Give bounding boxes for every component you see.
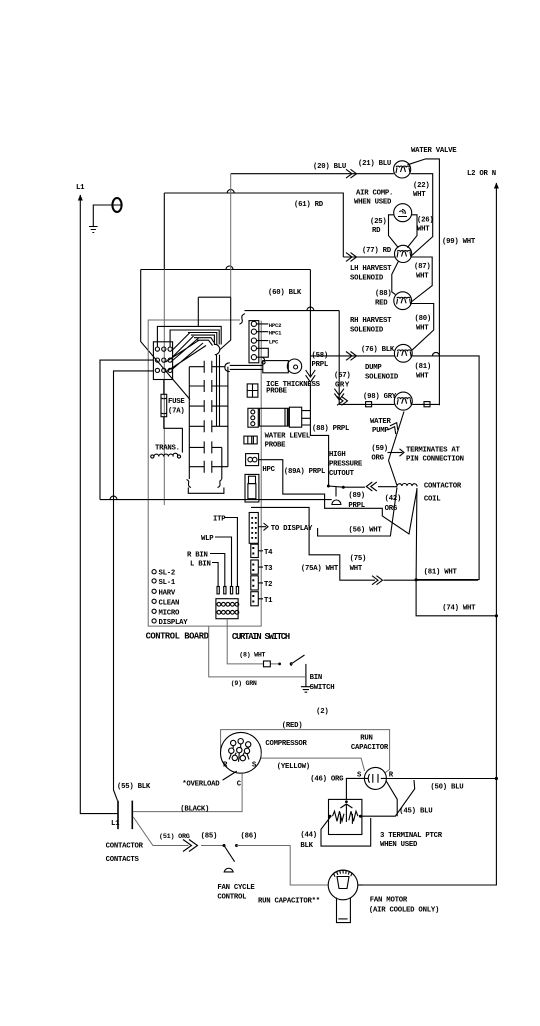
svg-text:WATER VALVE: WATER VALVE xyxy=(411,147,457,155)
svg-text:CONTROL BOARD: CONTROL BOARD xyxy=(146,632,209,642)
svg-text:SOLENOID: SOLENOID xyxy=(350,275,384,283)
svg-text:*OVERLOAD: *OVERLOAD xyxy=(182,781,220,789)
svg-text:PRPL: PRPL xyxy=(348,502,365,510)
svg-text:(77) RD: (77) RD xyxy=(362,247,392,255)
svg-text:LPC: LPC xyxy=(269,338,279,345)
svg-text:(BLACK): (BLACK) xyxy=(180,806,209,814)
svg-text:WHEN USED: WHEN USED xyxy=(354,199,392,207)
svg-text:CAPACITOR: CAPACITOR xyxy=(351,744,389,752)
svg-text:CONTACTOR: CONTACTOR xyxy=(106,843,144,851)
svg-text:(60) BLK: (60) BLK xyxy=(268,289,302,297)
svg-text:WATER: WATER xyxy=(370,418,392,426)
svg-text:TRANS.: TRANS. xyxy=(155,445,180,453)
svg-text:(YELLOW): (YELLOW) xyxy=(277,763,310,771)
svg-text:FAN MOTOR: FAN MOTOR xyxy=(370,897,408,905)
svg-text:CUTOUT: CUTOUT xyxy=(329,470,355,478)
svg-text:RUN CAPACITOR**: RUN CAPACITOR** xyxy=(258,898,320,906)
svg-text:(42): (42) xyxy=(385,495,402,503)
svg-text:(51) ORG: (51) ORG xyxy=(159,833,190,841)
svg-text:(89A) PRPL: (89A) PRPL xyxy=(284,468,325,476)
svg-text:MICRO: MICRO xyxy=(159,609,181,617)
svg-text:WHT: WHT xyxy=(350,565,363,573)
svg-text:(2): (2) xyxy=(316,708,328,716)
svg-text:T4: T4 xyxy=(264,549,273,557)
svg-text:(8) WHT: (8) WHT xyxy=(239,652,265,659)
svg-text:(88) PRPL: (88) PRPL xyxy=(312,425,349,433)
svg-text:FUSE: FUSE xyxy=(168,398,185,406)
svg-text:PROBE: PROBE xyxy=(266,388,288,396)
svg-text:SWITCH: SWITCH xyxy=(310,684,335,692)
svg-text:(87): (87) xyxy=(414,263,431,271)
svg-text:(98) GRY: (98) GRY xyxy=(363,393,397,401)
svg-text:WHEN USED: WHEN USED xyxy=(380,841,418,849)
svg-text:SOLENOID: SOLENOID xyxy=(350,327,384,335)
svg-text:SL-2: SL-2 xyxy=(159,570,176,578)
svg-text:(76) BLK: (76) BLK xyxy=(361,346,395,354)
svg-text:CONTACTOR: CONTACTOR xyxy=(424,483,462,491)
svg-text:CLEAN: CLEAN xyxy=(159,599,180,607)
svg-text:TERMINATES AT: TERMINATES AT xyxy=(406,447,461,455)
svg-text:(74) WHT: (74) WHT xyxy=(442,604,476,612)
svg-text:TO DISPLAY: TO DISPLAY xyxy=(271,525,313,533)
svg-text:L1: L1 xyxy=(76,184,85,192)
svg-text:GRY: GRY xyxy=(335,382,350,390)
svg-text:(61) RD: (61) RD xyxy=(294,201,324,209)
svg-text:(20) BLU: (20) BLU xyxy=(313,163,346,171)
svg-text:PIN CONNECTION: PIN CONNECTION xyxy=(406,456,464,464)
svg-text:(88): (88) xyxy=(375,290,392,298)
svg-text:ORG: ORG xyxy=(385,505,398,513)
svg-text:BIN: BIN xyxy=(310,674,322,682)
svg-text:CONTROL: CONTROL xyxy=(217,894,246,902)
svg-text:(25): (25) xyxy=(370,218,387,226)
svg-text:R BIN: R BIN xyxy=(187,552,208,560)
svg-text:WATER LEVEL: WATER LEVEL xyxy=(265,433,310,441)
svg-text:WHT: WHT xyxy=(416,325,429,333)
svg-text:(99) WHT: (99) WHT xyxy=(442,238,476,246)
svg-text:HIGH: HIGH xyxy=(329,451,346,459)
svg-text:PUMP: PUMP xyxy=(372,427,389,435)
svg-text:(55) BLK: (55) BLK xyxy=(117,783,151,791)
svg-text:T3: T3 xyxy=(264,565,273,573)
svg-text:L2 OR N: L2 OR N xyxy=(467,170,496,178)
svg-text:WLP: WLP xyxy=(201,535,214,543)
svg-text:WHT: WHT xyxy=(413,191,426,199)
svg-text:HPC1: HPC1 xyxy=(269,330,282,337)
svg-text:PRESSURE: PRESSURE xyxy=(329,461,363,469)
svg-text:(81) WHT: (81) WHT xyxy=(424,569,458,577)
svg-text:(9) GRN: (9) GRN xyxy=(231,680,257,687)
svg-text:(21) BLU: (21) BLU xyxy=(358,160,391,168)
svg-text:AIR COMP.: AIR COMP. xyxy=(356,190,393,198)
svg-text:SOLENOID: SOLENOID xyxy=(365,374,399,382)
svg-text:T2: T2 xyxy=(264,581,272,589)
svg-text:RH HARVEST: RH HARVEST xyxy=(350,317,392,325)
svg-text:WHT: WHT xyxy=(417,226,430,234)
svg-text:(75): (75) xyxy=(350,555,367,563)
svg-text:(50) BLU: (50) BLU xyxy=(430,784,463,792)
svg-text:HPC2: HPC2 xyxy=(269,322,282,329)
svg-text:T1: T1 xyxy=(264,597,273,605)
svg-text:(56) WHT: (56) WHT xyxy=(349,526,383,534)
svg-text:(RED): (RED) xyxy=(282,722,303,730)
svg-text:(89): (89) xyxy=(348,492,365,500)
svg-text:3 TERMINAL PTCR: 3 TERMINAL PTCR xyxy=(380,832,443,840)
svg-text:(46) ORG: (46) ORG xyxy=(310,776,344,784)
svg-text:RD: RD xyxy=(372,227,381,235)
svg-text:(75A) WHT: (75A) WHT xyxy=(301,565,339,573)
svg-text:ORG: ORG xyxy=(371,455,384,463)
svg-text:COMPRESSOR: COMPRESSOR xyxy=(265,740,307,748)
svg-text:COIL: COIL xyxy=(424,496,441,504)
svg-text:(45) BLU: (45) BLU xyxy=(399,808,432,816)
svg-text:(26): (26) xyxy=(417,217,434,225)
svg-text:WHT: WHT xyxy=(416,273,429,281)
svg-text:(85): (85) xyxy=(201,832,218,840)
svg-text:DUMP: DUMP xyxy=(365,364,382,372)
svg-text:(AIR COOLED ONLY): (AIR COOLED ONLY) xyxy=(369,907,439,915)
svg-text:L1: L1 xyxy=(111,820,120,828)
svg-text:(22): (22) xyxy=(413,182,430,190)
svg-text:ITP: ITP xyxy=(213,515,226,523)
svg-text:DISPLAY: DISPLAY xyxy=(159,619,189,627)
svg-text:(86): (86) xyxy=(241,832,258,840)
svg-text:BLK: BLK xyxy=(300,842,313,850)
svg-text:CONTACTS: CONTACTS xyxy=(106,856,140,864)
svg-text:(44): (44) xyxy=(300,832,317,840)
svg-text:LH HARVEST: LH HARVEST xyxy=(350,265,392,273)
svg-text:RUN: RUN xyxy=(360,735,372,743)
svg-text:HPC: HPC xyxy=(262,466,275,474)
svg-text:(81): (81) xyxy=(415,363,432,371)
svg-text:L BIN: L BIN xyxy=(190,561,211,569)
svg-text:WHT: WHT xyxy=(416,373,429,381)
svg-text:SL-1: SL-1 xyxy=(159,579,176,587)
svg-text:PRPL: PRPL xyxy=(312,361,329,369)
svg-text:HARV: HARV xyxy=(159,589,176,597)
svg-text:(57): (57) xyxy=(334,372,351,380)
svg-text:(80): (80) xyxy=(415,315,432,323)
svg-text:RED: RED xyxy=(375,300,388,308)
svg-text:(59): (59) xyxy=(371,445,388,453)
svg-text:CURTAIN SWITCH: CURTAIN SWITCH xyxy=(232,632,290,642)
svg-text:PROBE: PROBE xyxy=(265,442,287,450)
svg-text:FAN CYCLE: FAN CYCLE xyxy=(217,884,255,892)
svg-text:(7A): (7A) xyxy=(168,408,185,416)
